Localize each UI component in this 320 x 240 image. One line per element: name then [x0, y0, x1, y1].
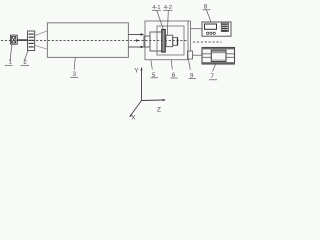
beam expander 2: [28, 31, 35, 51]
leader label 1: [10, 44, 12, 61]
input port box: [144, 36, 150, 47]
display device 7: [202, 48, 235, 65]
leader label 6: [171, 60, 172, 70]
svg-text:8: 8: [204, 3, 208, 10]
leader label 2: [24, 51, 28, 62]
small block: [173, 38, 178, 46]
diverging beam fan: [35, 31, 48, 36]
leader label 5: [151, 60, 153, 70]
measured body box 3: [47, 23, 128, 58]
optical axis dashed centerline: [1, 40, 188, 42]
output beam arrow bottom: [128, 46, 141, 48]
wire to device 7: [193, 54, 203, 56]
laser 1: [10, 35, 17, 44]
receiver housing box 5: [145, 21, 188, 60]
beam segment laser to expander: [17, 39, 27, 41]
output beam arrow middle: [136, 39, 140, 42]
leader label 3: [74, 58, 75, 70]
coordinate axes: [131, 70, 164, 115]
inner frame box 6: [157, 26, 184, 55]
connector box: [188, 51, 193, 59]
svg-text:Y: Y: [134, 67, 139, 74]
detector plate 4-1: [162, 30, 165, 53]
svg-text:X: X: [131, 115, 136, 122]
output beam arrow top: [128, 34, 141, 36]
detector block 4-2: [166, 35, 173, 47]
leader label 9: [189, 60, 191, 70]
dashed signal line right: [193, 41, 222, 43]
controller 8: [202, 22, 231, 36]
svg-text:Z: Z: [157, 107, 161, 114]
label 7: [213, 64, 216, 72]
wire to controller 8: [188, 20, 191, 22]
stage box: [150, 32, 163, 51]
